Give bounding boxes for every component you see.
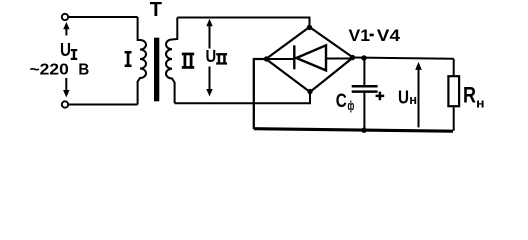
arrowhead UI bottom xyxy=(63,90,69,98)
terminal X2 (bottom input) xyxy=(62,101,68,107)
svg-text:U: U xyxy=(60,39,71,60)
label II (secondary winding) xyxy=(182,53,194,69)
wire bottom-left input to transformer primary xyxy=(69,104,138,106)
capacitor C-f bottom plate xyxy=(352,90,378,93)
svg-text:~220: ~220 xyxy=(30,61,69,78)
bottom bus wire xyxy=(254,129,453,132)
arrowhead UII bottom xyxy=(206,89,212,97)
transformer T core xyxy=(154,38,159,102)
diode line triangle base to right vertex xyxy=(326,58,353,60)
voltage arrow UII shaft bottom part xyxy=(209,67,211,92)
terminal X1 (top input) xyxy=(62,14,68,20)
transformer T primary winding I xyxy=(138,17,146,105)
svg-text:U: U xyxy=(206,46,217,66)
wire capacitor bottom branch xyxy=(363,93,365,130)
junction dot bridge right vertex xyxy=(350,55,355,60)
wire resistor bottom xyxy=(453,107,455,131)
junction dot capacitor top xyxy=(361,55,366,60)
diode anode line (left vertex to cathode bar) xyxy=(266,58,294,60)
wire bridge minus: left vertex down to bottom bus xyxy=(254,59,266,129)
voltage arrow Un xyxy=(418,68,420,127)
svg-text:T: T xyxy=(150,0,162,21)
label UII (secondary voltage) over the arrow xyxy=(204,49,228,66)
label I (primary winding) xyxy=(125,51,132,67)
svg-text:R: R xyxy=(463,82,476,107)
transformer T secondary winding II xyxy=(166,18,177,104)
diode triangle (pointing left) xyxy=(296,45,326,70)
wire secondary bottom (AC) to bridge bottom vertex xyxy=(175,92,310,103)
resistor Rn box xyxy=(448,76,459,106)
wire top-left input to transformer primary xyxy=(69,16,138,18)
diode cathode bar xyxy=(293,45,295,69)
arrowhead Un top xyxy=(415,62,422,70)
wire resistor top xyxy=(453,59,455,76)
svg-text:н: н xyxy=(476,96,484,111)
junction dot bridge top vertex xyxy=(307,25,312,30)
wire capacitor top branch xyxy=(363,58,365,85)
voltage arrow UI up (top) xyxy=(65,27,67,36)
svg-text:н: н xyxy=(409,92,417,107)
wire secondary top to bridge top vertex xyxy=(177,18,309,28)
wire bridge plus: right vertex to load xyxy=(353,58,454,59)
svg-text:В: В xyxy=(78,61,89,78)
svg-text:C: C xyxy=(336,91,347,112)
capacitor C-f top plate xyxy=(352,85,378,88)
junction dot bridge bottom vertex xyxy=(307,89,312,94)
svg-text:V4: V4 xyxy=(377,26,401,45)
junction dot bridge left vertex xyxy=(264,56,269,61)
voltage arrow UI down (bottom) xyxy=(65,78,67,90)
junction dot capacitor bottom xyxy=(361,128,366,133)
svg-text:ф: ф xyxy=(348,99,355,113)
arrowhead UI top xyxy=(63,22,69,29)
bridge rectifier diamond V1-V4 xyxy=(266,27,353,92)
voltage arrow UII shaft top part xyxy=(209,24,211,49)
svg-text:U: U xyxy=(398,86,409,107)
plus polarity mark of capacitor xyxy=(376,92,385,101)
svg-text:V1: V1 xyxy=(349,26,371,45)
arrowhead UII top xyxy=(206,19,212,27)
